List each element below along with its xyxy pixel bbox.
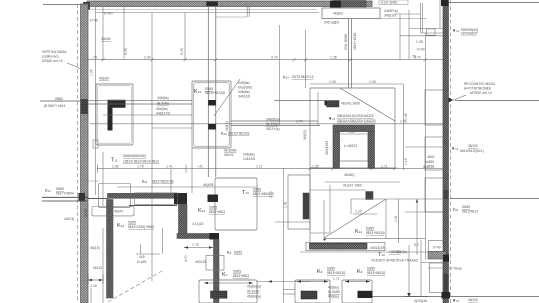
- svg-text:IB 20/60: IB 20/60: [157, 102, 169, 106]
- svg-text:L=46312: L=46312: [344, 144, 357, 148]
- wire: vertical x=409 with bottom arrow: [407, 245, 411, 297]
- svg-text:1.11: 1.11: [256, 164, 262, 168]
- svg-text:53/65: 53/65: [327, 267, 335, 271]
- svg-text:1.05: 1.05: [455, 267, 462, 271]
- dimension: arrow dim line y=247.5: [184, 246, 213, 248]
- wire: leader line from note to K13 box: [214, 79, 240, 116]
- wire: long vertical axis x=152: [151, 13, 153, 282]
- column-box: bottom box K6 right: [342, 280, 372, 303]
- column-box: right wall niche box 2: [425, 137, 443, 170]
- wall: top-left corner junction block: [83, 2, 90, 10]
- label: top-right corner small texts: [410, 40, 425, 59]
- label: top-right beam tag K13I 30/60: [379, 0, 408, 5]
- dimension: arrows y=281 K6 boxes: [297, 280, 370, 282]
- wire: bottom line left segment: [405, 296, 428, 298]
- svg-text:53/65: 53/65: [367, 267, 375, 271]
- label: level marker 15 bottom right: [452, 298, 478, 303]
- svg-text:-.75: -.75: [91, 56, 97, 60]
- svg-text:1361(8a): 1361(8a): [394, 250, 408, 254]
- label: K11 tag right wall: [453, 205, 478, 214]
- svg-text:2.34: 2.34: [144, 56, 151, 60]
- label: 449 b=p55: [137, 255, 147, 264]
- column-box: tall white niche box on right wall bottom: [430, 263, 444, 293]
- wall: corridor horizontal hatched wall: [108, 193, 175, 198]
- wire: line y=252: [300, 251, 430, 253]
- svg-text:53/65: 53/65: [209, 206, 217, 210]
- svg-text:346(8a): 346(8a): [243, 153, 255, 157]
- svg-text:1.41: 1.41: [284, 201, 288, 208]
- svg-text:46115: 46115: [93, 266, 102, 270]
- label: beam tags right of K7: [247, 285, 261, 299]
- svg-text:46(8a)(: 46(8a)(: [328, 286, 340, 290]
- svg-text:4.14(15: 4.14(15: [192, 222, 204, 226]
- svg-text:b=40: b=40: [433, 246, 441, 250]
- wire: vertical line x=305.5: [305, 30, 307, 88]
- wire: line y=222: [275, 221, 310, 223]
- column: black block lower in K13 box: [208, 124, 216, 130]
- label: RECOUNTIKI MASA note right: [452, 82, 496, 101]
- svg-text:4640: 4640: [427, 155, 435, 159]
- beam: double vertical beam lines x=348.5/351.5: [349, 19, 352, 88]
- beam: beam lines right of K13 box: [231, 121, 320, 126]
- label: dim 1.35 pair on y=84: [329, 80, 376, 84]
- label: K13 tag lower-left: [117, 221, 154, 230]
- label: T13 tag: [242, 188, 274, 197]
- svg-text:1.75: 1.75: [137, 164, 144, 168]
- wall: shaft top hatched wall: [333, 125, 375, 132]
- dimension: vertical dimension line x=403.5: [403, 84, 405, 170]
- wire: second inner face line of top wall: [96, 12, 319, 14]
- column: black foot at right wall bottom: [442, 292, 451, 299]
- label: beam tag IB 20/60 left beam: [156, 96, 170, 116]
- wall: right wall dark lower segment: [443, 274, 449, 299]
- wire: vertical x=140.5: [140, 244, 142, 254]
- wire: long line y=187: [117, 186, 257, 188]
- wire: shaft inner outline: [340, 132, 369, 162]
- wall: left wall darker segment: [81, 99, 89, 114]
- svg-text:1.41: 1.41: [166, 164, 173, 168]
- column: black block upper in K13 box: [208, 100, 216, 106]
- svg-text:1.45: 1.45: [404, 113, 408, 120]
- wall: left exterior wall hatched band: [81, 4, 89, 303]
- svg-text:348(6a): 348(6a): [238, 90, 250, 94]
- label: K6 tag left: [317, 267, 346, 276]
- wire: beam line y=101 left of wall: [40, 100, 81, 102]
- svg-text:46370: 46370: [114, 210, 123, 214]
- column: black cap on right wall top: [441, 0, 449, 6]
- label: K7 tag: [222, 270, 249, 279]
- svg-text:53/65: 53/65: [462, 205, 470, 209]
- label: dims on y=60 line: [91, 48, 421, 59]
- svg-text:1-05: 1-05: [416, 40, 423, 44]
- svg-text:46370( 3660: 46370( 3660: [341, 102, 360, 106]
- svg-text:346127/6: 346127/6: [156, 112, 170, 116]
- label: K11 tag corridor: [142, 179, 174, 184]
- svg-text:4613+4618: 4613+4618: [353, 33, 357, 50]
- wire: short vertical pair x=248: [246, 7, 248, 18]
- column-box: small box above K7: [206, 256, 224, 271]
- column: black block at bottom of center wall: [211, 291, 228, 298]
- wire: vertical x=421 bottom right: [420, 240, 422, 297]
- column-box: bottom box K6 left: [295, 280, 330, 303]
- svg-text:-.14: -.14: [348, 130, 354, 134]
- svg-text:5813+1913(+5813: 5813+1913(+5813: [128, 225, 154, 229]
- wire: horizontal lines into right wall: [400, 29, 458, 269]
- wall: shaft right hatched wall: [368, 132, 375, 169]
- column-box: K13 formwork outline (double border): [192, 81, 231, 148]
- wire: vertical line x=124: [123, 7, 125, 60]
- svg-text:5613/9610(611): 5613/9610(611): [460, 149, 484, 153]
- wire: vertical line x=103 top: [102, 7, 104, 60]
- label: IIb 30/60 under K13 box: [224, 149, 237, 158]
- svg-text:53/65/63/65/163: 53/65/63/65/163: [123, 154, 146, 158]
- svg-text:5.7: 5.7: [428, 164, 433, 168]
- svg-text:13613/6: 13613/6: [243, 157, 255, 161]
- wire: vertical line x=103 bottom: [102, 228, 104, 303]
- node: arrow tick on line: [268, 280, 272, 283]
- wire: top edge line right of wall corner: [449, 2, 539, 4]
- wire: dashed diagonal at stair bottom: [108, 271, 162, 302]
- wire: vertical line x=103 middle: [102, 152, 104, 206]
- svg-text:46450): 46450): [344, 173, 355, 177]
- beam: double beam lines into left wall y=100.5/104: [88, 100, 192, 104]
- svg-text:46(8a)(a): 46(8a)(a): [247, 295, 261, 299]
- column-box: box around vertical pier x288-310: [288, 175, 310, 229]
- column: black block at lower wall corner: [210, 233, 220, 240]
- wire: vertical line x=91 bottom: [90, 288, 92, 303]
- wire: top line left of corner: [43, 4, 81, 6]
- wire: line y=238.7: [324, 238, 425, 240]
- column: hatched black block in K6 left box: [301, 291, 317, 299]
- column: black block in K6 right box: [358, 291, 373, 298]
- dimension: long horizontal dimension line y=124: [90, 123, 443, 125]
- svg-text:44613(19): 44613(19): [370, 246, 385, 250]
- wire: line under lintel box: [322, 18, 427, 20]
- column-box: right wall niche box 1: [425, 90, 443, 125]
- svg-text:b=p55: b=p55: [137, 260, 147, 264]
- label: K10 tag left: [42, 181, 99, 201]
- svg-text:b=40: b=40: [417, 48, 425, 52]
- column-box: right wall box with hatched beam: [421, 241, 449, 263]
- wire: vertical x=171: [170, 169, 172, 193]
- wall: corridor lower horizontal hatched wall: [177, 234, 210, 239]
- svg-text:K13I 30/60: K13I 30/60: [381, 1, 398, 5]
- wire: vertical lines x=425.5/427.5 right corner: [395, 0, 440, 260]
- dimension: line y=115: [103, 114, 192, 116]
- label: lintel notes top middle-right: [324, 9, 398, 25]
- column: hatched pier block: [303, 193, 309, 219]
- svg-text:53/75 5813+13: 53/75 5813+13: [292, 75, 314, 79]
- label: K13 tag in upper box: [194, 87, 225, 95]
- label: K14 tag: [355, 227, 385, 236]
- svg-text:34612/6: 34612/6: [238, 95, 250, 99]
- svg-text:1.35: 1.35: [329, 80, 336, 84]
- dimension: line y=128: [152, 127, 192, 129]
- svg-text:402/60: 402/60: [101, 37, 111, 41]
- svg-text:-1.16: -1.16: [89, 284, 97, 288]
- svg-text:(B 5607+4614: (B 5607+4614: [44, 104, 65, 108]
- svg-text:1.71: 1.71: [381, 164, 388, 168]
- svg-text:IIb 30/60: IIb 30/60: [247, 290, 260, 294]
- label: tag right of top-right wall: [452, 28, 478, 37]
- svg-text:IIba26/6d: IIba26/6d: [238, 86, 252, 90]
- svg-text:349(6a): 349(6a): [238, 81, 250, 85]
- svg-text:4463F(a): 4463F(a): [384, 9, 398, 13]
- svg-text:1101/9912: 1101/9912: [461, 33, 477, 37]
- svg-text:09/60: 09/60: [55, 97, 63, 101]
- svg-text:53/65: 53/65: [234, 251, 242, 255]
- column: black T-shaped column C1: [108, 100, 126, 131]
- wire: vertical x=417: [416, 199, 418, 255]
- beam: bottom dark hatched beam band: [306, 242, 385, 250]
- svg-text:IIb 30/60: IIb 30/60: [266, 122, 279, 126]
- svg-text:46(8a)(: 46(8a)(: [328, 295, 340, 299]
- wire: line y=190: [310, 189, 366, 191]
- column: hatched block on T13 box left edge: [208, 195, 219, 203]
- wire: line y=254 left: [136, 253, 160, 255]
- label: T11 tag: [111, 154, 159, 164]
- svg-text:5813+5813|1: 5813+5813|1: [367, 271, 386, 275]
- svg-text:463115: 463115: [195, 260, 206, 264]
- svg-text:4.70: 4.70: [184, 255, 188, 262]
- svg-text:1.71: 1.71: [333, 277, 340, 281]
- svg-text:46(626: 46(626: [203, 183, 214, 187]
- wire: long bottom line y=296.5: [372, 296, 539, 298]
- svg-text:AHTITRITBOMES: AHTITRITBOMES: [464, 87, 491, 91]
- svg-text:53/65: 53/65: [253, 188, 261, 192]
- wire: dashed axis line left of wall: [77, 4, 79, 303]
- svg-text:4(15)(4a: 4(15)(4a: [414, 299, 427, 303]
- svg-text:5813+5813: 5813+5813: [209, 210, 225, 214]
- svg-text:449: 449: [139, 255, 145, 259]
- wire: line y=281.5: [257, 281, 310, 283]
- label: dims on y=124 line: [296, 120, 407, 124]
- svg-text:45/100: 45/100: [468, 298, 478, 302]
- svg-text:35/100: 35/100: [468, 144, 478, 148]
- label: beam tags between K6 boxes: [328, 286, 340, 299]
- dimension: long horizontal dimension line y=168.5: [97, 165, 443, 174]
- column-box: left formwork outline: [96, 84, 133, 145]
- svg-text:9009/99(10): 9009/99(10): [461, 28, 478, 32]
- svg-text:44474(: 44474(: [64, 217, 75, 221]
- svg-text:5.7: 5.7: [414, 243, 419, 247]
- svg-text:1.15: 1.15: [404, 158, 408, 165]
- wire: vertical x=162.5: [162, 228, 164, 254]
- column: hatched block left in K14 box: [327, 101, 340, 108]
- label: level marker 14 right side: [451, 144, 484, 153]
- wire: long line right of wall y=198.5: [450, 198, 539, 200]
- column-box: small box top right corner: [427, 29, 435, 35]
- column-box: enclosure box around corridor wall: [135, 193, 178, 205]
- label: texts in shaft: [303, 130, 357, 155]
- svg-text:34622/6: 34622/6: [384, 14, 396, 18]
- label: T10 tag: [370, 246, 419, 263]
- beam: upper beam line to K14 block: [275, 100, 327, 102]
- dimension: vertical x=398.5: [398, 199, 400, 243]
- svg-text:1.41: 1.41: [394, 215, 398, 222]
- wire: vertical line x=185: [184, 13, 186, 61]
- label: level marker 13 with notes: [328, 114, 376, 123]
- node: arrowhead at diagonal bottom: [323, 238, 327, 241]
- svg-text:413/37 1960: 413/37 1960: [343, 184, 362, 188]
- svg-text:1.15: 1.15: [269, 191, 273, 198]
- svg-text:6.78: 6.78: [180, 48, 184, 55]
- svg-text:53/65: 53/65: [128, 221, 136, 225]
- dimension: small dim line y=214: [353, 213, 377, 215]
- label: beam tags right of K13 box: [266, 118, 280, 132]
- svg-text:46450: 46450: [84, 209, 88, 218]
- wire: vertical axis x=283.5: [283, 168, 285, 303]
- label: vertical dims right side: [404, 113, 435, 169]
- wire: double vertical wall lines x=207.5/215.5: [208, 7, 216, 177]
- column: black corner block at corridor wall end: [174, 193, 187, 204]
- svg-text:1.35: 1.35: [369, 80, 376, 84]
- label: texts at shaft lower: [343, 173, 362, 188]
- wall: left wall junction block at corridor: [79, 193, 86, 201]
- label: K9 tag: [227, 250, 242, 255]
- wire: line y=233: [310, 232, 330, 234]
- svg-text:5813/5813: 5813/5813: [462, 210, 478, 214]
- svg-text:b=KO: b=KO: [104, 12, 113, 16]
- svg-text:46476: 46476: [224, 153, 233, 157]
- dimension: main horizontal dimension line y=60: [88, 58, 443, 61]
- svg-text:5813+5813|5: 5813+5813|5: [366, 231, 385, 235]
- svg-text:TUZHSTI SPRETKVE TRASAC: TUZHSTI SPRETKVE TRASAC: [371, 259, 419, 263]
- svg-text:-.75: -.75: [410, 55, 416, 59]
- svg-text:5813+5813+58: 5813+5813+58: [152, 180, 174, 184]
- column-box: K14 large formwork outline: [310, 88, 395, 243]
- label: 402/60 tag: [101, 37, 111, 41]
- label: K13 tag mid: [198, 206, 225, 215]
- svg-text:46(15): 46(15): [225, 121, 229, 131]
- wire: line y=17: [216, 16, 248, 18]
- svg-text:1.35: 1.35: [312, 164, 319, 168]
- svg-text:(zatikovao): (zatikovao): [42, 55, 59, 59]
- wire: long line y=199 to right wall: [351, 198, 443, 200]
- wire: long line right of wall y=101: [455, 100, 539, 102]
- wire: corridor wall face line to left wall: [88, 198, 108, 200]
- wire: vertical x=324: [323, 200, 325, 238]
- label: beam tag 1B left wall: [44, 97, 65, 108]
- svg-text:5813+5813|1: 5813+5813|1: [327, 271, 346, 275]
- node: small bracket on wall face: [93, 140, 98, 148]
- node: black dot at hatched block: [325, 101, 328, 106]
- dimension: small dim line y=84 over K14: [310, 83, 403, 85]
- wall: top wall darker segment above shaft: [333, 1, 366, 8]
- label: note VERTIKA MASA top-left: [42, 50, 80, 69]
- wire: inner face line of top wall: [88, 9, 317, 11]
- svg-text:46(15): 46(15): [303, 130, 307, 140]
- svg-text:346(6a): 346(6a): [157, 96, 169, 100]
- svg-text:58133+581333: 58133+581333: [228, 132, 250, 136]
- beam: short beam lines right of K7 box: [284, 289, 296, 291]
- svg-text:IB 30/60: IB 30/60: [328, 290, 340, 294]
- svg-text:RECOUNTIKI MASA: RECOUNTIKI MASA: [464, 82, 496, 86]
- label: K14 tag upper: [283, 75, 314, 80]
- svg-text:403/60: 403/60: [99, 77, 109, 81]
- svg-text:46(8a)(a): 46(8a)(a): [247, 285, 261, 289]
- svg-text:58177/4854: 58177/4854: [56, 192, 74, 196]
- label: K6 tag right: [357, 267, 386, 276]
- column-box: bottom box K7: [199, 280, 257, 303]
- svg-text:46(15): 46(15): [90, 246, 100, 250]
- label: tag above T13 box: [243, 153, 255, 162]
- wire: diagonal strike line in K14 lower area: [324, 199, 386, 238]
- svg-text:1.74: 1.74: [296, 120, 303, 124]
- svg-text:6.78: 6.78: [124, 48, 128, 55]
- column-box: box left on corridor wall: [99, 184, 131, 208]
- wire: vertical x=351: [350, 199, 352, 214]
- column: solid block on top wall at axis: [330, 1, 341, 8]
- svg-text:1.35: 1.35: [90, 69, 94, 76]
- svg-text:URADI avt.10: URADI avt.10: [42, 59, 63, 63]
- svg-text:-.41: -.41: [197, 164, 203, 168]
- wall: right wall dark block at beam seat: [443, 190, 449, 199]
- svg-text:4612+(a): 4612+(a): [266, 127, 280, 131]
- svg-text:46(8a): 46(8a): [333, 12, 343, 16]
- column-box: T13 box x215-257: [215, 178, 257, 230]
- svg-text:4.70: 4.70: [271, 56, 278, 60]
- svg-text:1.23: 1.23: [355, 210, 362, 214]
- wall: top exterior wall hatched band: [87, 1, 372, 7]
- wire: vertical x=386: [385, 199, 387, 239]
- svg-text:1.30: 1.30: [112, 164, 119, 168]
- label: rotated beam texts at x=349: [344, 33, 357, 50]
- svg-text:3361163/1161233/116323: 3361163/1161233/116323: [337, 114, 374, 118]
- column: hatched block at shaft right wall: [366, 192, 373, 200]
- svg-text:345 (a@5: 345 (a@5: [324, 21, 339, 25]
- column-box: small box under corridor wall: [92, 207, 134, 216]
- dimension: stair width dim with arrows y=280: [88, 274, 103, 284]
- svg-text:IIb 30/60: IIb 30/60: [224, 149, 237, 153]
- svg-text:320(1363: 320(1363: [325, 141, 329, 155]
- label: stair texts: [89, 246, 102, 288]
- wire: diagonal opening line in K14 box: [340, 88, 395, 121]
- svg-text:COL 30/60: COL 30/60: [344, 34, 348, 50]
- label: top wall texts b=KO b=45: [90, 12, 113, 23]
- svg-text:53/60: 53/60: [56, 187, 64, 191]
- wire: vertical axis line x=95.5: [95, 7, 97, 195]
- node: black arrow tick on right wall at y=100: [449, 98, 454, 103]
- wall: corridor vertical hatched wall: [179, 204, 188, 233]
- wall: right exterior wall hatched band: [443, 0, 449, 303]
- svg-text:53/65: 53/65: [366, 227, 374, 231]
- svg-text:464(6a): 464(6a): [156, 107, 168, 111]
- svg-text:5813+5813: 5813+5813: [233, 274, 249, 278]
- wall: center vertical hatched wall to bottom: [214, 240, 220, 303]
- svg-text:1.35: 1.35: [330, 56, 337, 60]
- svg-text:b=45: b=45: [90, 19, 98, 23]
- wire: vertical line x=318: [317, 92, 319, 126]
- label: dims on y=168.5 line: [112, 164, 433, 168]
- wall: stair vertical hatched wall bottom-left: [107, 200, 114, 299]
- svg-text:1.75: 1.75: [192, 243, 199, 247]
- wire: line y=182: [325, 181, 400, 183]
- label: note lines right of K13 box: [238, 81, 252, 99]
- wall: shaft left hatched wall: [333, 132, 340, 169]
- column-box: right wall niche box 3: [425, 178, 443, 212]
- beam: top lintel outline box: [322, 8, 380, 19]
- wire: vertical x=192 below K13 box: [191, 148, 193, 193]
- node: tick arrow at x=417 top: [416, 199, 418, 203]
- wire: vertical riser x=279.3: [278, 25, 280, 126]
- label: K10 tag lower right of K13 box: [221, 131, 250, 136]
- svg-text:APBOE del.10: APBOE del.10: [470, 91, 492, 95]
- wire: vertical x=330: [329, 185, 331, 233]
- column: small solid block on top wall left: [206, 2, 218, 7]
- svg-text:13813+3813+3813+3813: 13813+3813+3813+3813: [123, 159, 159, 163]
- wire: dashed axis line right of wall: [450, 0, 452, 303]
